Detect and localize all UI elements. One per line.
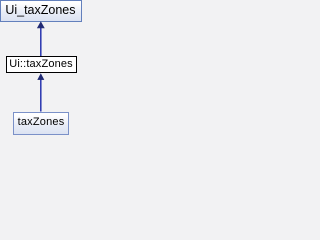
- node Ui::taxZones (undocumented class box): [6, 56, 77, 73]
- node taxZones (documented class box): [13, 112, 69, 135]
- node Ui_taxZones (current class box): [0, 0, 82, 22]
- edge taxZones -> Ui::taxZones : shaft: [40, 79, 42, 112]
- edge taxZones -> Ui::taxZones : arrowhead: [38, 74, 44, 80]
- edge Ui::taxZones -> Ui_taxZones : arrowhead: [37, 22, 44, 28]
- edge Ui::taxZones -> Ui_taxZones : shaft: [40, 27, 42, 56]
